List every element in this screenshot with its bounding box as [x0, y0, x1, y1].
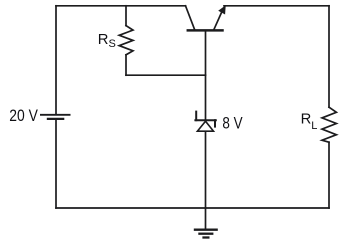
battery long plate — [40, 114, 71, 116]
ground bar 3 — [202, 236, 209, 238]
zener diode D1 — [195, 112, 215, 132]
wire ground stub — [205, 208, 207, 230]
wire zener to bottom rail — [205, 131, 207, 208]
transistor collector lead — [186, 6, 195, 30]
transistor emitter lead — [214, 13, 222, 30]
battery V1 20V — [40, 115, 71, 119]
transistor base bar — [188, 29, 223, 32]
wire top rail right segment — [224, 5, 329, 7]
wire RS top stub — [125, 6, 127, 26]
ground bar 2 — [198, 233, 213, 235]
transistor emitter arrowhead — [218, 5, 226, 14]
zener cathode bar — [195, 119, 215, 121]
wire right branch upper — [328, 6, 330, 107]
wire RS bottom stub — [125, 55, 127, 75]
resistor RS — [119, 26, 133, 55]
svg-text:20 V: 20 V — [9, 106, 38, 125]
wire right branch lower — [328, 142, 330, 208]
transistor Q1 — [186, 5, 226, 30]
wire top rail left segment — [56, 5, 186, 7]
ground bar 1 — [194, 229, 218, 231]
wire RS to base node — [126, 74, 206, 76]
zener cathode left hook — [195, 112, 197, 121]
zener anode triangle — [197, 121, 213, 131]
ground — [194, 230, 218, 238]
wire left branch upper — [55, 6, 57, 114]
wire bottom rail — [56, 207, 329, 209]
zener cathode right hook — [214, 120, 216, 126]
resistor RL — [322, 107, 336, 142]
wire left branch lower — [55, 120, 57, 208]
battery short plate — [47, 118, 65, 120]
svg-text:8 V: 8 V — [222, 115, 242, 133]
wire base vertical — [205, 32, 207, 121]
